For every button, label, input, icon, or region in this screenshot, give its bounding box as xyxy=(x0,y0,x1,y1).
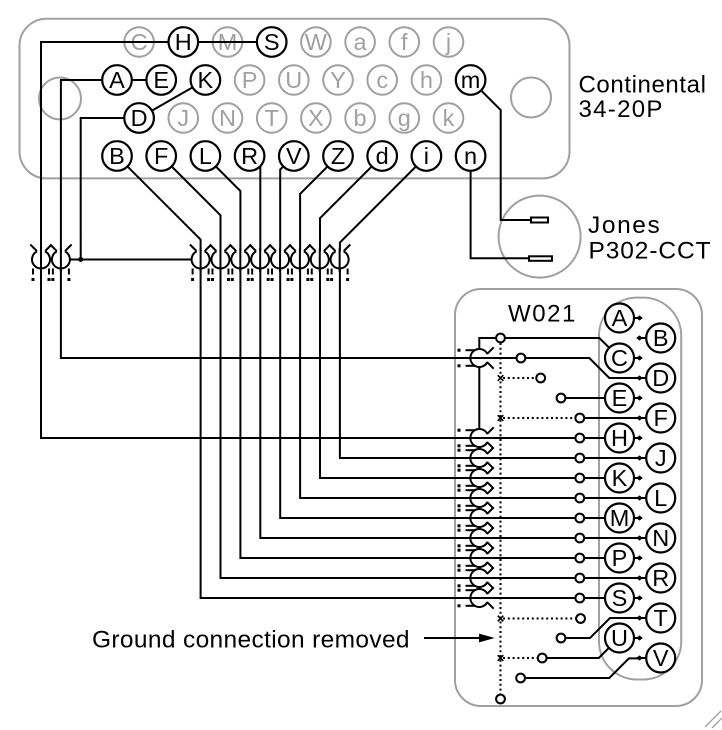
svg-text:X: X xyxy=(308,105,324,131)
svg-text:J: J xyxy=(655,445,667,471)
svg-text:b: b xyxy=(354,105,367,131)
svg-text:j: j xyxy=(445,29,451,55)
svg-text:A: A xyxy=(612,305,628,331)
svg-text:N: N xyxy=(652,525,669,551)
svg-text:k: k xyxy=(443,105,455,131)
svg-text:P: P xyxy=(612,545,628,571)
svg-text:L: L xyxy=(654,485,667,511)
svg-text:W: W xyxy=(305,29,328,55)
svg-text:M: M xyxy=(610,505,630,531)
svg-text:d: d xyxy=(376,143,389,169)
svg-text:R: R xyxy=(652,565,669,591)
svg-text:T: T xyxy=(654,605,668,631)
svg-text:B: B xyxy=(109,143,125,169)
svg-text:34-20P: 34-20P xyxy=(579,96,664,123)
svg-text:m: m xyxy=(461,67,481,93)
svg-text:A: A xyxy=(109,67,125,93)
svg-text:H: H xyxy=(611,425,628,451)
svg-text:E: E xyxy=(612,385,628,411)
svg-text:P302-CCT: P302-CCT xyxy=(589,238,712,265)
svg-text:D: D xyxy=(131,105,148,131)
svg-text:K: K xyxy=(612,465,628,491)
svg-text:K: K xyxy=(198,67,214,93)
svg-text:i: i xyxy=(424,143,429,169)
svg-text:W021: W021 xyxy=(508,301,577,328)
svg-text:Jones: Jones xyxy=(588,212,661,239)
svg-text:Y: Y xyxy=(330,67,346,93)
svg-text:f: f xyxy=(401,29,408,55)
svg-text:E: E xyxy=(153,67,169,93)
svg-text:F: F xyxy=(654,405,668,431)
svg-text:D: D xyxy=(652,365,669,391)
svg-text:Continental: Continental xyxy=(579,72,707,99)
svg-text:L: L xyxy=(199,143,212,169)
svg-text:n: n xyxy=(464,143,477,169)
svg-text:R: R xyxy=(241,143,258,169)
svg-text:V: V xyxy=(653,645,669,671)
svg-text:U: U xyxy=(285,67,302,93)
svg-text:P: P xyxy=(242,67,258,93)
svg-text:c: c xyxy=(376,67,388,93)
svg-text:H: H xyxy=(175,29,192,55)
svg-text:h: h xyxy=(420,67,433,93)
svg-text:C: C xyxy=(611,345,628,371)
svg-text:F: F xyxy=(154,143,168,169)
svg-text:Z: Z xyxy=(331,143,345,169)
svg-text:V: V xyxy=(286,143,302,169)
svg-text:S: S xyxy=(264,29,280,55)
svg-text:J: J xyxy=(177,105,189,131)
svg-text:B: B xyxy=(653,325,669,351)
svg-text:Ground connection removed: Ground connection removed xyxy=(92,627,410,654)
svg-text:a: a xyxy=(354,29,368,55)
svg-text:U: U xyxy=(611,625,628,651)
svg-text:T: T xyxy=(265,105,279,131)
svg-text:g: g xyxy=(398,105,411,131)
svg-text:N: N xyxy=(219,105,236,131)
svg-text:S: S xyxy=(612,585,628,611)
